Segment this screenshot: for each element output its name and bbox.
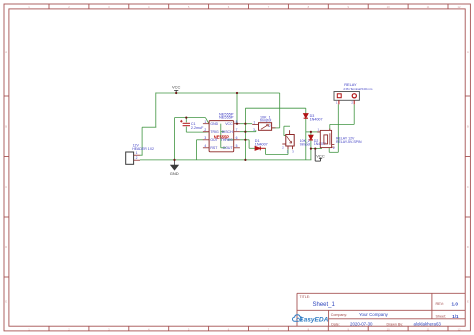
svg-text:1.0: 1.0 (452, 301, 459, 306)
svg-text:D: D (5, 245, 7, 249)
svg-text:NE555P: NE555P (219, 115, 234, 120)
svg-text:11: 11 (427, 327, 430, 331)
svg-text:10: 10 (387, 327, 390, 331)
svg-text:2.2muF: 2.2muF (191, 126, 204, 130)
svg-text:RST: RST (210, 146, 218, 150)
svg-text:11: 11 (427, 5, 430, 9)
svg-text:NE555P: NE555P (214, 134, 230, 139)
svg-text:REV:: REV: (436, 302, 444, 306)
svg-text:VCC: VCC (172, 85, 181, 90)
svg-text:VCC: VCC (225, 122, 233, 126)
svg-text:Drawn By:: Drawn By: (387, 322, 404, 326)
svg-text:7: 7 (236, 128, 238, 132)
svg-text:GND: GND (210, 122, 218, 126)
svg-text:B: B (5, 125, 7, 129)
svg-text:2020-07-30: 2020-07-30 (350, 322, 373, 327)
svg-text:HEADER 1X2: HEADER 1X2 (132, 147, 154, 151)
svg-text:2 Pin Terminal 5.00 mm: 2 Pin Terminal 5.00 mm (343, 87, 372, 91)
svg-text:1/1: 1/1 (452, 314, 459, 319)
svg-text:2: 2 (136, 156, 138, 160)
svg-text:3: 3 (204, 136, 206, 140)
svg-text:EasyEDA: EasyEDA (299, 317, 329, 324)
svg-text:C: C (5, 185, 7, 189)
svg-text:VCC: VCC (316, 154, 325, 159)
svg-text:2: 2 (269, 124, 271, 128)
svg-text:1N4007: 1N4007 (310, 117, 323, 121)
svg-text:12: 12 (458, 5, 461, 9)
svg-text:1: 1 (253, 121, 255, 125)
svg-text:1: 1 (204, 120, 206, 124)
svg-text:TITLE:: TITLE: (300, 295, 311, 299)
svg-text:COUT: COUT (223, 146, 234, 150)
svg-text:A: A (467, 50, 469, 54)
svg-text:trimpot: trimpot (300, 142, 310, 146)
svg-text:trimpot: trimpot (260, 119, 271, 123)
svg-text:RELAY-5V-SPIN: RELAY-5V-SPIN (336, 140, 362, 144)
svg-text:E: E (5, 300, 7, 304)
svg-text:Sheet:: Sheet: (436, 315, 447, 319)
svg-text:3: 3 (253, 128, 255, 132)
svg-text:A: A (5, 50, 7, 54)
svg-text:Sheet_1: Sheet_1 (313, 302, 336, 308)
svg-text:10: 10 (387, 5, 390, 9)
svg-text:GND: GND (170, 171, 179, 176)
svg-text:12: 12 (458, 327, 461, 331)
svg-text:D: D (467, 245, 469, 249)
svg-text:1N4007: 1N4007 (255, 142, 268, 146)
svg-text:1: 1 (136, 151, 138, 155)
svg-text:aloklakhera63: aloklakhera63 (414, 322, 442, 327)
svg-text:C: C (467, 185, 469, 189)
svg-text:B: B (467, 125, 469, 129)
svg-text:5: 5 (236, 144, 238, 148)
svg-text:2: 2 (204, 128, 206, 132)
svg-text:E: E (467, 300, 469, 304)
svg-text:Your Company: Your Company (359, 312, 389, 317)
svg-text:Date:: Date: (331, 322, 340, 326)
svg-text:Company:: Company: (331, 313, 347, 317)
svg-text:6: 6 (236, 136, 238, 140)
svg-text:4: 4 (204, 144, 206, 148)
